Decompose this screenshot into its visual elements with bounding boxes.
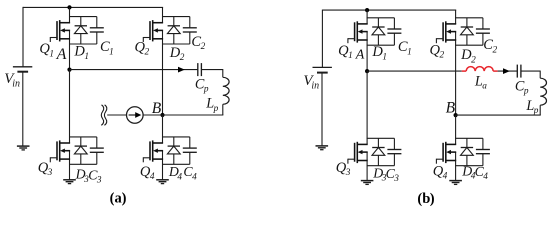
wire node B to current source [143,114,162,116]
wire Q1 source lead to node A [69,30,71,69]
svg-text:4: 4 [443,172,448,182]
wire node A to Q3 drain (b) [366,71,368,144]
wire Q4 ground stem [162,164,164,180]
wire Lp bottom to node B [163,114,224,116]
svg-text:3: 3 [345,168,351,178]
ground Q4 (b) [449,181,462,185]
wire Q1 drain lead [69,7,71,22]
node B (a) [160,113,164,117]
wire node B to Q4 drain [162,115,164,143]
diode D3 [74,137,87,164]
ground Q3 (a) [63,180,76,184]
transistor Q3b [348,142,368,164]
svg-text:3: 3 [47,168,53,178]
svg-text:3: 3 [393,174,399,184]
svg-text:4: 4 [483,172,488,182]
transistor Q1 [50,20,70,42]
diode D4b [461,138,474,165]
svg-text:3: 3 [96,175,102,185]
wire Q1 drain lead (b) [366,10,368,24]
transistor Q4 [143,140,163,162]
arrow current direction (a) [178,67,185,73]
capacitor C3b [387,138,401,165]
svg-text:4: 4 [177,172,182,182]
transistor Q2 [143,20,163,42]
wire left rail (b) [321,10,323,68]
wire current source to break [107,114,126,116]
node top-rail junction (b) [365,8,369,12]
node B (b) [454,113,458,117]
wire D2/C2 branch of Q2b [455,18,483,45]
svg-text:p: p [203,85,209,95]
ground Vin (b) [316,146,329,150]
svg-text:2: 2 [201,42,206,52]
diode D1b [372,18,385,45]
svg-text:B: B [446,99,456,116]
wire D4/C4 branch of Q4b [455,138,483,165]
ground Q4 (a) [156,180,169,184]
svg-text:a: a [482,82,487,92]
current source Ip (a) [127,107,144,124]
wire Q4 ground stem (b) [455,166,457,181]
svg-text:p: p [533,106,539,116]
inductor Lp (b) [540,71,546,116]
break squiggle (a) [101,105,107,126]
svg-text:1: 1 [407,47,412,57]
wire D1/C1 branch of Q1b [367,18,395,45]
svg-text:1: 1 [109,47,114,57]
capacitor C4b [476,138,490,165]
capacitor C2 [183,17,197,44]
wire Q1 source lead to node A (b) [366,32,368,72]
wire node A to Q3 drain [69,70,71,143]
capacitor C2b [476,18,490,45]
wire Q2 drain lead (b) [455,10,457,24]
capacitor C3 [90,137,104,164]
wire La to Cp (b) [498,70,518,72]
transistor Q3 [50,140,70,162]
wire node A to La (b) [367,70,462,72]
wire Q3 ground stem [69,164,71,180]
svg-text:A: A [355,47,365,62]
wire Q2 source lead to node B [162,30,164,115]
svg-text:4: 4 [192,172,197,182]
capacitor Cp (a) [198,63,202,76]
svg-text:2: 2 [439,51,444,61]
wire node B to Q4 drain (b) [455,115,457,144]
diode D3b [372,138,385,165]
svg-text:1: 1 [348,51,353,61]
node A (b) [365,69,369,73]
svg-text:in: in [12,79,20,90]
svg-text:4: 4 [150,172,155,182]
wire D4/C4 branch of Q4 [162,137,190,164]
ground Q3 (b) [361,181,374,185]
wire D2/C2 branch of Q2 [162,17,190,44]
wire Q3 source lead [69,151,71,165]
svg-text:p: p [213,104,219,114]
inductor Lp (a) [223,69,229,115]
svg-text:1: 1 [49,49,54,59]
svg-text:2: 2 [471,55,476,65]
transistor Q2b [436,21,456,43]
capacitor Cp (b) [517,65,521,78]
diode D4 [167,137,180,164]
wire left rail (a) [22,7,24,67]
wire Q2 source lead to node B (b) [455,32,457,116]
svg-text:1: 1 [382,52,387,62]
wire D3/C3 branch of Q3b [367,138,395,165]
wire top rail (a) [23,6,163,8]
wire Cp to Lp corner (b) [521,70,540,72]
capacitor C1 [90,17,104,44]
svg-text:): ) [122,190,127,206]
capacitor C1b [387,18,401,45]
wire Lp bottom to node B (b) [456,114,541,116]
battery Vin (a) [13,67,32,72]
svg-text:2: 2 [492,45,497,55]
svg-text:1: 1 [84,52,89,62]
wire top rail (b) [322,9,456,11]
ground Vin (a) [17,146,30,150]
inductor La (red) [462,67,498,72]
battery Vin (b) [313,67,332,72]
arrow current direction (b) [503,68,510,74]
wire Q3 source lead (b) [366,152,368,166]
wire battery to ground (b) [321,73,323,146]
wire Q4 source lead [162,151,164,165]
transistor Q4b [436,142,456,164]
wire D3/C3 branch of Q3 [69,137,97,164]
svg-text:): ) [430,191,435,207]
diode D1 [74,17,87,44]
svg-text:2: 2 [180,53,185,63]
wire Cp to Lp corner (a) [201,69,222,71]
node A (a) [67,68,71,72]
wire node A to Cp [70,69,198,71]
svg-text:in: in [311,81,319,92]
svg-text:2: 2 [144,48,149,58]
diode D2b [461,18,474,45]
svg-text:B: B [152,100,162,117]
capacitor C4 [183,137,197,164]
transistor Q1b [348,21,368,43]
diode D2 [167,17,180,44]
node top-rail junction (a) [67,5,71,9]
svg-text:A: A [56,46,67,63]
wire Q3 ground stem (b) [366,166,368,181]
wire battery to ground (a) [22,72,24,146]
wire Q2 drain lead [162,7,164,22]
wire D1/C1 branch of Q1 [69,17,97,44]
wire Q4 source lead (b) [455,152,457,166]
svg-text:p: p [523,86,529,96]
